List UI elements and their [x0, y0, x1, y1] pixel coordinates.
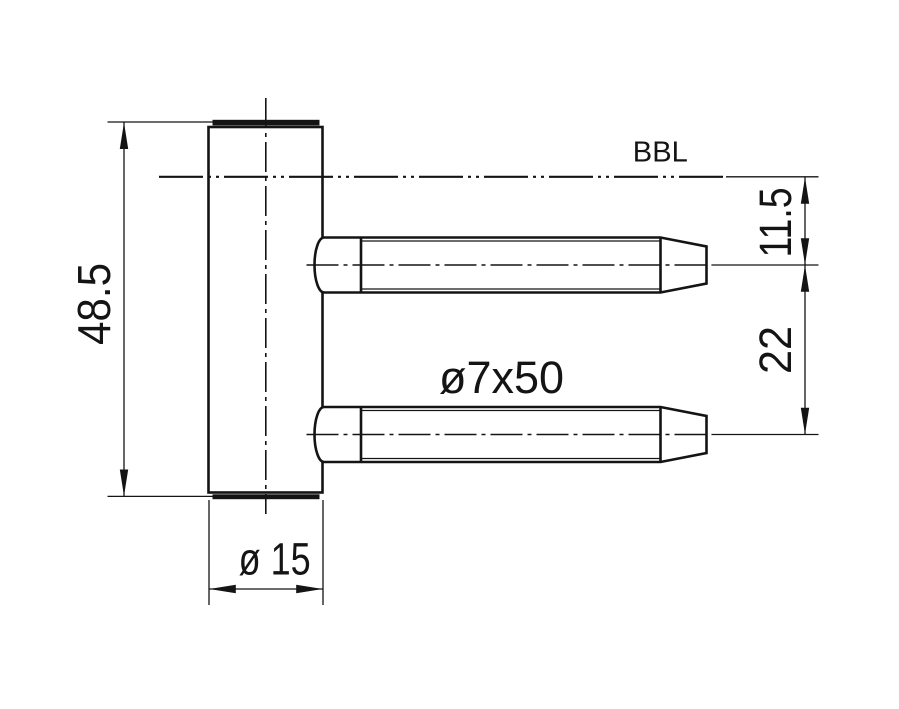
dim 11.5 arrow down [801, 238, 809, 265]
upper pin thread line top [361, 240, 661, 242]
dim 15 left extension line [208, 500, 210, 605]
hinge barrel (frame part body) [209, 127, 323, 493]
dim 15 dimension line [209, 588, 323, 590]
svg-text:ø7x50: ø7x50 [439, 352, 564, 403]
dim 48.5 dimension line [123, 123, 125, 497]
dim 22 text [750, 326, 801, 374]
svg-text:22: 22 [750, 326, 801, 374]
upper dowel pin silhouette [315, 238, 707, 293]
dim 15 right extension line [322, 500, 324, 605]
lower pin thread line bottom [361, 458, 661, 460]
BBL extension line to dimension [726, 176, 819, 178]
dim 11.5 arrow up [801, 177, 809, 204]
dim 15 arrow right [296, 585, 323, 593]
upper pin collar line [360, 238, 363, 293]
lower pin thread line top [361, 410, 661, 412]
upper pin centerline [307, 264, 713, 266]
dim 22 arrow down [801, 408, 809, 435]
svg-text:48.5: 48.5 [68, 263, 120, 345]
upper pin cone base line [659, 238, 662, 293]
dim 11.5 text [750, 188, 801, 258]
dim 22 dimension line [804, 265, 806, 435]
lower pin centerline extension to dimension [712, 434, 819, 436]
lower dowel pin silhouette [315, 407, 707, 462]
lower pin centerline [307, 434, 713, 436]
lower pin cone base line [659, 407, 662, 462]
dim 48.5 bottom extension line [108, 495, 214, 497]
dim 48.5 top extension line [108, 121, 214, 123]
BBL reference line (phantom dash-double-dot) [159, 176, 726, 178]
dim 48.5 arrow up [120, 123, 128, 150]
dim 22 arrow up [801, 265, 809, 292]
dim 15 arrow left [209, 585, 236, 593]
lower pin collar line [360, 407, 363, 462]
barrel bottom cap (thick band) [213, 494, 320, 499]
dim 11.5 dimension line [804, 177, 806, 265]
svg-text:BBL: BBL [633, 137, 688, 169]
svg-text:ø 15: ø 15 [239, 534, 311, 585]
barrel vertical centerline [265, 98, 267, 514]
upper pin thread line bottom [361, 288, 661, 290]
svg-text:11.5: 11.5 [750, 188, 801, 258]
dim 48.5 arrow down [120, 470, 128, 497]
upper pin centerline extension to dimension [712, 264, 819, 266]
barrel top cap (thick band) [213, 120, 320, 126]
dim 48.5 text [68, 263, 120, 345]
